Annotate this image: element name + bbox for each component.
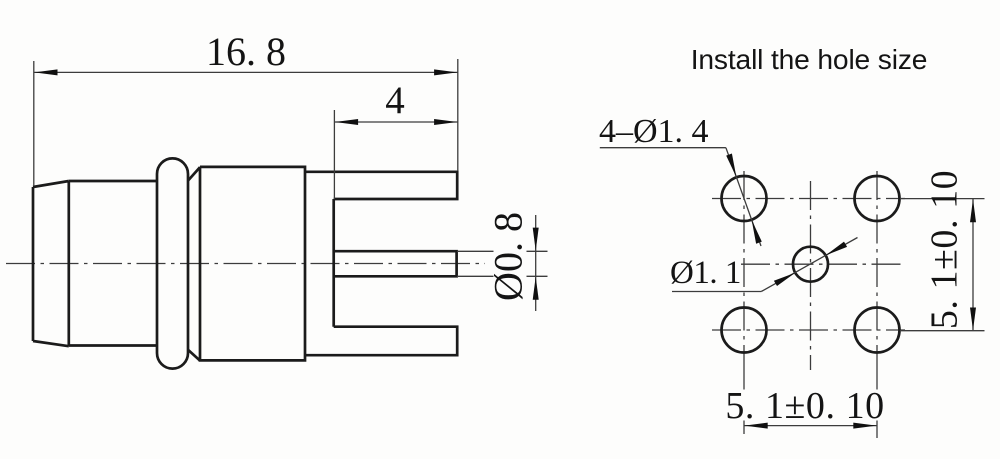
svg-text:Ø0. 8: Ø0. 8 (486, 212, 531, 301)
svg-text:Ø1. 1: Ø1. 1 (670, 255, 741, 291)
svg-text:5. 1±0. 10: 5. 1±0. 10 (725, 385, 884, 427)
svg-text:5. 1±0. 10: 5. 1±0. 10 (924, 170, 966, 329)
svg-text:Install the hole size: Install the hole size (691, 43, 928, 75)
svg-text:16. 8: 16. 8 (206, 29, 286, 74)
svg-text:4: 4 (385, 79, 405, 122)
svg-text:4–Ø1. 4: 4–Ø1. 4 (599, 113, 709, 150)
